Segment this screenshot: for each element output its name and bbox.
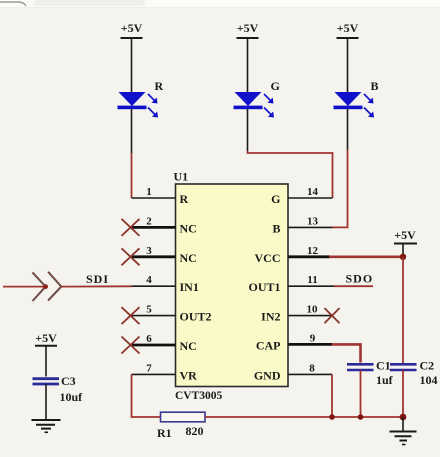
wire SDO (red) <box>334 285 373 287</box>
pin 5 stub <box>132 315 176 317</box>
wire LED G cathode down (black part) <box>247 109 249 151</box>
svg-text:104: 104 <box>420 373 438 387</box>
svg-text:14: 14 <box>307 186 319 198</box>
svg-text:5: 5 <box>146 304 152 316</box>
svg-text:CAP: CAP <box>256 338 281 352</box>
pin 12 stub <box>288 255 330 258</box>
junction dot at chevron tip <box>43 284 48 289</box>
pin 4 stub <box>132 285 176 287</box>
svg-text:7: 7 <box>146 362 152 374</box>
wire LED R to pin1 (red) <box>131 153 133 198</box>
svg-text:R: R <box>155 79 164 93</box>
svg-text:6: 6 <box>146 333 152 345</box>
top white band <box>0 0 440 8</box>
svg-text:GND: GND <box>254 368 281 382</box>
pin 13 stub <box>288 226 333 228</box>
svg-text:IN1: IN1 <box>180 280 199 294</box>
pin 14 stub <box>288 197 333 199</box>
svg-text:VR: VR <box>180 368 198 382</box>
ground bus wire (red) <box>205 416 403 418</box>
pin 2 stub <box>132 226 176 229</box>
SDI wire right segment (red) <box>61 285 131 287</box>
junction dot C1/bus <box>358 414 364 420</box>
wire pin12 VCC to +5V node (red) <box>329 255 403 258</box>
svg-text:R1: R1 <box>157 426 172 440</box>
power rail +5V (LED R) <box>121 21 143 38</box>
pin 11 stub <box>288 285 334 287</box>
svg-text:R: R <box>180 192 189 206</box>
SDI port chevron 2 <box>48 272 61 301</box>
svg-text:OUT1: OUT1 <box>248 280 280 294</box>
power rail +5V (right, VCC) <box>394 228 417 257</box>
svg-text:C1: C1 <box>376 359 391 373</box>
junction dot VCC node <box>400 254 406 260</box>
svg-text:CVT3005: CVT3005 <box>175 390 223 402</box>
svg-text:SDO: SDO <box>346 272 374 286</box>
svg-text:NC: NC <box>180 251 197 265</box>
svg-text:IN2: IN2 <box>261 310 280 324</box>
svg-text:4: 4 <box>146 274 152 286</box>
svg-text:OUT2: OUT2 <box>180 310 212 324</box>
wire LED B to pin13 (red) <box>333 150 348 227</box>
wire C1 bottom to bus (red) <box>360 370 362 417</box>
svg-text:NC: NC <box>180 221 197 235</box>
no-connect X pin 10 <box>325 308 340 323</box>
svg-text:G: G <box>271 192 280 206</box>
svg-text:G: G <box>271 79 280 93</box>
svg-text:9: 9 <box>310 332 316 344</box>
svg-text:12: 12 <box>307 245 319 257</box>
wire +5V to LED R <box>131 38 133 92</box>
wire LED G to pin14 (red) <box>248 151 333 198</box>
svg-text:C3: C3 <box>61 374 76 388</box>
no-connect X pin 2 <box>122 219 140 236</box>
capacitor C3 <box>33 379 60 384</box>
LED G (D green channel) <box>234 92 275 118</box>
svg-text:NC: NC <box>180 339 197 353</box>
svg-text:11: 11 <box>307 274 317 286</box>
wire +5V to LED G <box>247 38 249 92</box>
resistor R1 <box>161 412 206 422</box>
wire C2 bottom to bus (red) <box>402 370 404 417</box>
pin 6 stub <box>132 344 176 347</box>
power rail +5V (LED B) <box>337 21 359 38</box>
svg-text:+5V: +5V <box>394 228 416 242</box>
svg-text:1uf: 1uf <box>376 373 394 387</box>
wire C3 to ground <box>45 384 47 420</box>
IC U1 body <box>176 184 289 387</box>
capacitor C1 <box>347 364 374 370</box>
svg-text:+5V: +5V <box>337 21 359 35</box>
svg-text:13: 13 <box>307 215 319 227</box>
pin 8 stub <box>288 373 332 375</box>
wire +5V to LED B <box>347 38 349 92</box>
wire pin9 to C1 (red) <box>332 344 361 362</box>
LED R (D red channel) <box>118 92 159 118</box>
junction dot C2/ground <box>400 414 407 421</box>
no-connect X pin 6 <box>122 337 140 354</box>
svg-text:+5V: +5V <box>35 331 57 345</box>
wire LED B cathode down (black part) <box>347 109 349 150</box>
svg-text:C2: C2 <box>420 359 435 373</box>
wire +5V to C3 <box>45 346 47 377</box>
svg-text:VCC: VCC <box>255 251 281 265</box>
svg-text:+5V: +5V <box>121 21 143 35</box>
wire LED R cathode down (black part) <box>131 109 133 153</box>
LED B (D blue channel) <box>334 92 375 118</box>
svg-text:8: 8 <box>309 362 315 374</box>
pin 9 stub <box>288 343 333 346</box>
pin 10 stub <box>288 315 332 317</box>
ground symbol left <box>32 420 61 432</box>
svg-text:U1: U1 <box>174 170 189 184</box>
wire pin7 down to R1 (red) <box>132 374 161 417</box>
pin 3 stub <box>132 255 176 258</box>
junction dot pin8/bus <box>329 414 335 420</box>
SDI port chevron 1 <box>33 272 46 301</box>
SDI input wire left segment (red) <box>3 286 46 288</box>
no-connect X pin 5 <box>122 307 140 324</box>
pin 1 stub <box>132 197 176 199</box>
power rail +5V (C3) <box>35 331 57 346</box>
wire pin8 GND down to bus (red) <box>331 374 333 417</box>
svg-text:10uf: 10uf <box>60 390 84 404</box>
svg-text:2: 2 <box>146 215 152 227</box>
svg-text:B: B <box>272 221 280 235</box>
svg-text:3: 3 <box>146 245 152 257</box>
ground symbol right <box>390 417 417 445</box>
svg-text:1: 1 <box>146 186 152 198</box>
power rail +5V (LED G) <box>237 21 259 38</box>
svg-text:10: 10 <box>307 304 319 316</box>
svg-text:SDI: SDI <box>86 272 109 286</box>
svg-text:820: 820 <box>186 424 204 438</box>
capacitor C2 <box>390 364 417 370</box>
no-connect X pin 3 <box>122 248 140 265</box>
pin 7 stub <box>132 373 176 375</box>
svg-text:B: B <box>371 79 379 93</box>
wire +5V node down to C2 (red) <box>402 257 404 364</box>
svg-text:+5V: +5V <box>237 21 259 35</box>
